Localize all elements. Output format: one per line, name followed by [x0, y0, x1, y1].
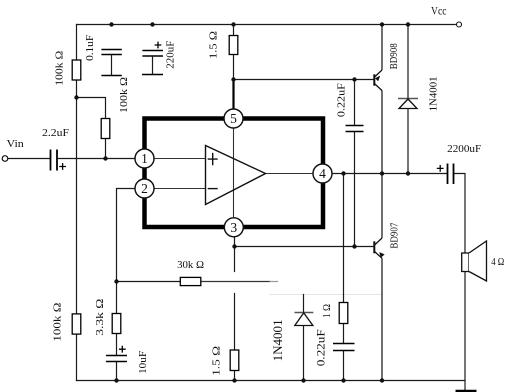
ground [456, 390, 477, 392]
wire 1 ohm to 0.22uF bottom [343, 324, 345, 344]
wire 0.22uF bottom to rail [343, 351, 345, 381]
wire bottom 1N4001 upper lead [303, 295, 305, 313]
node pin 4 [313, 164, 332, 183]
terminal Vin [2, 156, 8, 162]
junction ground rail / 10uF [114, 378, 118, 382]
wire pin3 stub upper [234, 237, 236, 272]
capacitor C4 0.22uF top [346, 126, 364, 132]
wire 1.5ohm bottom to rail [234, 371, 236, 381]
wire 30k right fading segment [201, 281, 270, 283]
capacitor C6 10uF [106, 356, 127, 362]
wire Vin terminal to coupling cap [8, 158, 51, 160]
junction Vcc rail / 0.1uF [109, 22, 113, 26]
svg-text:4 Ω: 4 Ω [491, 256, 504, 268]
diode D2 1N4001 bottom [295, 312, 314, 314]
junction ground rail / BD907 emitter [380, 378, 384, 382]
svg-text:3: 3 [230, 220, 237, 235]
wire pin 2 to feedback node [117, 189, 136, 282]
diode D1 1N4001 top [398, 98, 418, 100]
junction Vcc rail / 220uF [150, 22, 154, 26]
capacitor C2 0.1uF [101, 50, 121, 55]
terminal Vcc [457, 22, 462, 27]
junction input node [103, 156, 107, 160]
svg-text:0.1uF: 0.1uF [84, 35, 96, 61]
node 5 junction [231, 77, 235, 81]
wire coupling cap to pin 1 [57, 158, 135, 160]
capacitor C7 0.22uF bottom [333, 344, 355, 351]
svg-text:1N4001: 1N4001 [427, 76, 439, 111]
junction Vcc rail / 1N4001 [406, 22, 410, 26]
capacitor C3 220uF [142, 51, 163, 57]
svg-text:BD907: BD907 [389, 222, 401, 248]
wire 1 ohm branch upper [343, 174, 345, 303]
svg-text:0.22uF: 0.22uF [316, 329, 328, 366]
wire bottom ground rail [77, 380, 466, 382]
wire top 1N4001 upper lead [407, 25, 409, 99]
svg-text:100k Ω: 100k Ω [52, 303, 64, 342]
resistor R8 1 ohm [339, 303, 348, 324]
wire 10uF to rail [116, 362, 118, 381]
svg-text:1N4001: 1N4001 [271, 319, 285, 361]
resistor R7 1.5 ohm bottom [230, 350, 239, 371]
svg-text:2200uF: 2200uF [447, 143, 481, 155]
wire top 1N4001 lower lead [407, 109, 409, 174]
wire 3.3k to 10uF [116, 334, 118, 356]
wire 2200uF to speaker corner [454, 174, 466, 254]
wire 1.5ohm to node5 [233, 55, 235, 80]
node pin 5 [224, 109, 243, 128]
junction BD907 base / 0.22uF [352, 244, 356, 248]
wire left vertical bias divider [76, 25, 78, 381]
resistor R2 100k bias [101, 119, 110, 139]
svg-text:5: 5 [230, 111, 237, 126]
svg-text:Vcc: Vcc [431, 3, 447, 17]
svg-text:BD908: BD908 [388, 43, 400, 69]
speaker LS1 4 ohm [462, 241, 487, 281]
svg-text:2.2uF: 2.2uF [42, 127, 69, 139]
junction pin3 / BD907 base rail [232, 244, 236, 248]
wire feedback node to 30k [117, 281, 181, 283]
junction ground rail / 1.5 ohm [232, 378, 236, 382]
resistor R5 100k bottom left [72, 314, 81, 334]
junction base rail / 0.22uF [352, 77, 356, 81]
svg-text:1.5 Ω: 1.5 Ω [208, 31, 220, 59]
wire node5 to pin 5 thick [232, 80, 234, 110]
resistor R4 30k [180, 277, 201, 285]
wire faint feedback trace [270, 294, 382, 296]
junction ground rail / 0.22uF [341, 378, 345, 382]
svg-text:2: 2 [141, 181, 148, 196]
svg-text:220uF: 220uF [164, 41, 176, 69]
node pin 3 [224, 218, 243, 237]
node pin 2 [135, 179, 154, 198]
junction Vcc rail / 1.5 ohm [231, 22, 235, 26]
transistor Q1 BD908 [374, 25, 382, 174]
wire bias midpoint jog [77, 98, 106, 119]
capacitor C1 2.2uF input coupling [51, 150, 58, 171]
svg-text:1: 1 [141, 151, 148, 166]
wire 0.22uF top lead [354, 80, 356, 126]
resistor R3 1.5 ohm top [229, 36, 238, 55]
svg-text:1 Ω: 1 Ω [321, 304, 333, 318]
junction output / 1N4001 [406, 171, 410, 175]
wire pin3 stub lower [234, 294, 236, 351]
wire top supply rail [77, 24, 456, 26]
wire BD907 base rail [235, 246, 375, 248]
op-amp U1 internal wires [154, 128, 313, 217]
svg-text:100k Ω: 100k Ω [53, 51, 65, 86]
transistor Q2 BD907 [374, 174, 384, 381]
svg-text:Vin: Vin [7, 138, 25, 150]
wire 100k2 to input node [105, 139, 107, 159]
svg-text:100k Ω: 100k Ω [118, 77, 130, 113]
wire node5 rail to BD908 base [234, 79, 375, 81]
op-amp U1 triangle [206, 146, 266, 205]
svg-text:30k Ω: 30k Ω [177, 259, 204, 271]
junction Vcc rail / BD908 emitter [380, 22, 384, 26]
junction ground rail / 1N4001 [301, 378, 305, 382]
junction feedback node [114, 279, 118, 283]
wire bottom 1N4001 lower lead [303, 326, 305, 381]
wire output from pin 4 [332, 173, 447, 175]
junction output / 1 ohm branch [341, 171, 345, 175]
wire 3.3k top lead [116, 282, 118, 314]
svg-text:3.3k Ω: 3.3k Ω [94, 299, 106, 336]
junction output / transistor collectors [380, 171, 384, 175]
svg-text:4: 4 [319, 166, 326, 181]
capacitor C5 2200uF output coupling [448, 164, 454, 185]
svg-text:0.22uF: 0.22uF [335, 83, 347, 117]
wire 0.22uF bottom lead crossing output [354, 132, 356, 247]
svg-text:1.5 Ω: 1.5 Ω [210, 346, 222, 376]
op-amp U1 IC outline thick [145, 119, 324, 228]
wire speaker bottom to ground [464, 272, 466, 391]
wire 1.5ohm top lead [233, 25, 235, 36]
resistor R6 3.3k [112, 314, 121, 334]
svg-text:10uF: 10uF [137, 351, 149, 374]
resistor R1 100k top left [72, 60, 81, 80]
junction bias divider midpoint [74, 95, 78, 99]
node pin 1 [135, 149, 154, 168]
